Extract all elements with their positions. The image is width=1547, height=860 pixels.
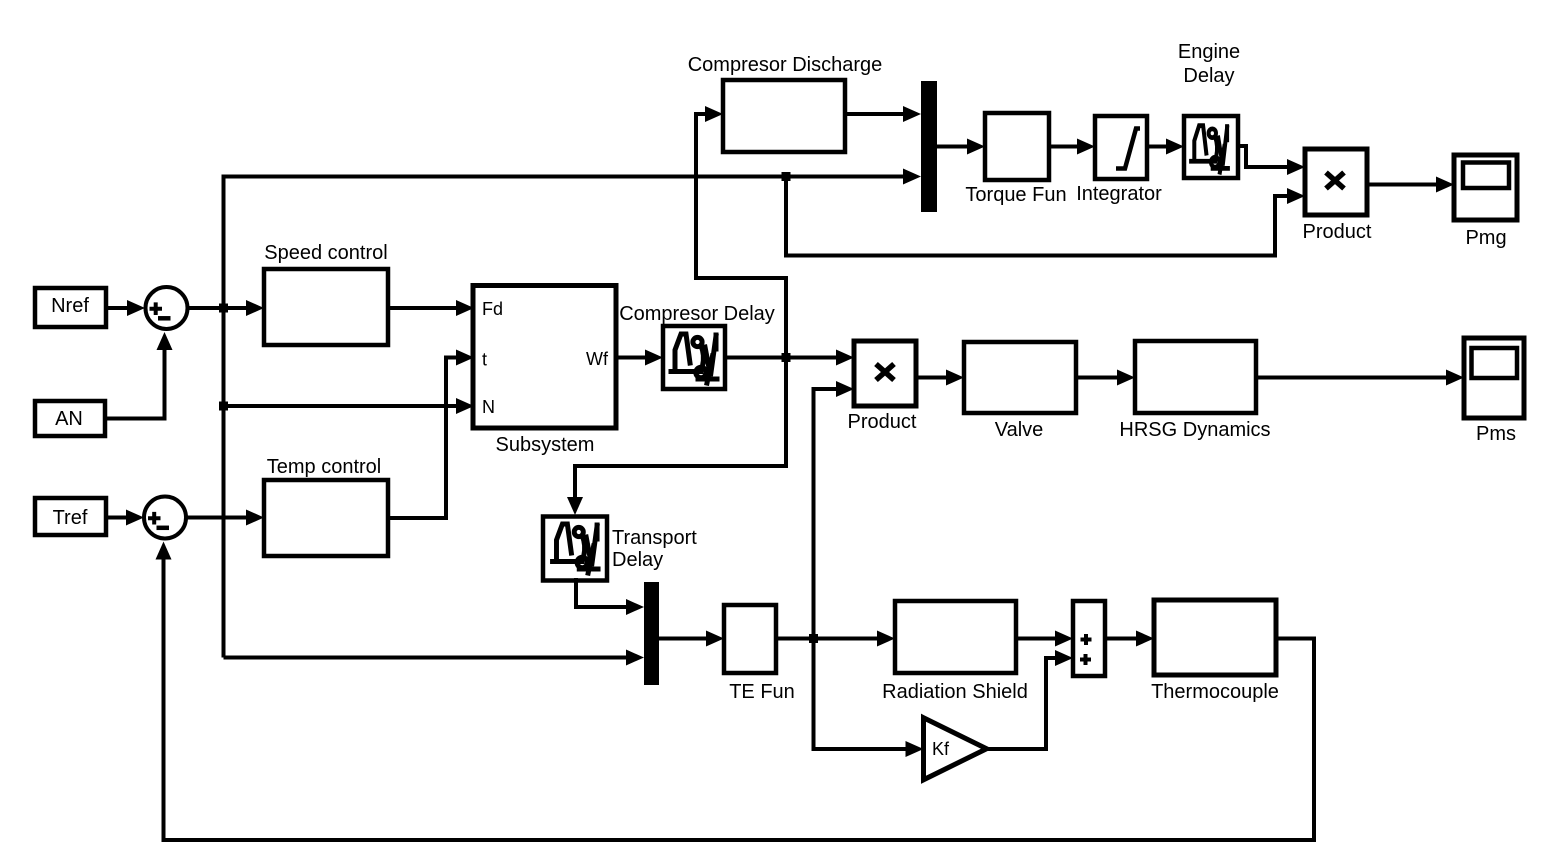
wire TE Fun to Radiation Shield <box>776 637 879 641</box>
svg-text:Compresor Discharge: Compresor Discharge <box>688 54 883 76</box>
svg-text:Product: Product <box>848 411 917 433</box>
wire Compresor Delay to Product2 <box>725 356 838 360</box>
block Engine Delay <box>1184 116 1238 178</box>
wire Sum2 to Temp control <box>186 516 248 520</box>
svg-text:Engine: Engine <box>1178 41 1240 63</box>
svg-text:Tref: Tref <box>53 507 88 529</box>
wire Wf to Compresor Delay <box>616 356 647 360</box>
wire Temp control to t input <box>388 358 458 519</box>
svg-text:t: t <box>482 350 487 370</box>
wire branch up to Product2 second input <box>814 389 839 639</box>
wire Mux1 to Torque Fun <box>937 145 969 149</box>
block HRSG Dynamics <box>1135 341 1256 413</box>
svg-text:Pmg: Pmg <box>1465 227 1506 249</box>
wire Compresor Discharge to Mux1 <box>845 112 904 116</box>
wire Tref to Sum2 <box>106 516 129 520</box>
svg-text:Speed control: Speed control <box>264 242 387 264</box>
svg-text:Product: Product <box>1303 221 1372 243</box>
wire Transport Delay to Mux2 <box>576 578 628 607</box>
svg-text:Temp control: Temp control <box>267 456 382 478</box>
svg-text:N: N <box>482 397 495 417</box>
block Product1 <box>1305 149 1367 215</box>
block Valve <box>964 342 1076 413</box>
mux Mux1 <box>921 81 937 212</box>
svg-text:Delay: Delay <box>612 549 663 571</box>
wire Torque Fun to Integrator <box>1049 145 1079 149</box>
block Subsystem <box>473 286 616 429</box>
scope Pms <box>1464 338 1524 418</box>
block Transport Delay <box>543 517 607 581</box>
wire Valve to HRSG Dynamics <box>1076 376 1119 380</box>
svg-text:Subsystem: Subsystem <box>496 434 595 456</box>
svg-text:AN: AN <box>55 408 83 430</box>
wire Sum1 to Speed control with branch node <box>188 306 248 310</box>
block Speed control <box>264 269 388 345</box>
svg-text:Wf: Wf <box>586 349 609 369</box>
scope Pmg <box>1454 155 1517 220</box>
svg-text:Nref: Nref <box>51 295 89 317</box>
wire Nref to Sum1 <box>106 306 130 310</box>
mux Mux2 <box>644 582 659 685</box>
node on y176 line x786 <box>782 172 791 181</box>
block Radiation Shield <box>895 601 1016 673</box>
svg-text:TE Fun: TE Fun <box>729 681 795 703</box>
wire Mux2 to TE Fun <box>659 637 708 641</box>
svg-text:Compresor Delay: Compresor Delay <box>619 303 775 325</box>
wire branch down to Kf <box>814 639 908 750</box>
wire Kf to Sum3 <box>986 658 1057 749</box>
block Torque Fun <box>985 113 1049 180</box>
svg-text:Integrator: Integrator <box>1076 183 1162 205</box>
icon integral sign <box>1116 129 1140 169</box>
sum junction Sum1 <box>146 287 188 329</box>
block Compresor Discharge <box>723 80 845 152</box>
svg-text:HRSG Dynamics: HRSG Dynamics <box>1119 419 1270 441</box>
svg-text:Delay: Delay <box>1183 65 1234 87</box>
wire Engine Delay to Product1 <box>1238 146 1289 167</box>
wire HRSG Dynamics to Pms <box>1256 376 1448 380</box>
source block Nref <box>35 288 106 327</box>
block Thermocouple <box>1154 600 1276 675</box>
wire branch to Subsystem N input <box>219 402 228 411</box>
sum junction Sum2 <box>144 497 186 539</box>
wire Sum3 to Thermocouple <box>1105 637 1138 641</box>
block Product2 <box>854 341 916 406</box>
icon Engine Delay scribble <box>1191 126 1228 173</box>
block Temp control <box>264 480 388 556</box>
wire Integrator to Engine Delay <box>1147 145 1168 149</box>
svg-text:Kf: Kf <box>932 739 950 759</box>
wire feedback Thermocouple to Sum2 <box>164 558 1315 840</box>
svg-text:Radiation Shield: Radiation Shield <box>882 681 1028 703</box>
icon Transport Delay scribble <box>553 524 599 573</box>
gain Kf triangle <box>924 718 987 780</box>
node at x223 on sum1 output <box>219 304 228 313</box>
svg-text:Valve: Valve <box>995 419 1044 441</box>
block TE Fun <box>724 605 776 673</box>
wire branch up to Compresor Discharge <box>696 114 786 358</box>
source block AN <box>35 401 105 436</box>
svg-text:Pms: Pms <box>1476 423 1516 445</box>
sum block Sum3 <box>1073 601 1105 676</box>
svg-text:Thermocouple: Thermocouple <box>1151 681 1279 703</box>
wire AN to Sum1 <box>105 350 165 419</box>
block Integrator <box>1095 116 1147 179</box>
wire branch down to Transport Delay <box>575 358 786 501</box>
wire Product1 to Pmg <box>1367 183 1438 187</box>
icon Compresor Delay scribble <box>671 334 717 383</box>
icon multiply x <box>876 364 894 380</box>
wire Speed control to Fd <box>388 306 458 310</box>
node on TE Fun output <box>809 634 818 643</box>
block Compresor Delay <box>663 326 725 389</box>
wire trunk to Mux2 lower input <box>224 656 628 660</box>
svg-text:Fd: Fd <box>482 299 503 319</box>
wire Radiation Shield to Sum3 <box>1016 637 1057 641</box>
svg-text:Torque Fun: Torque Fun <box>965 184 1066 206</box>
icon multiply x <box>1326 173 1344 189</box>
wire branch down to Product1 second input <box>786 177 1289 256</box>
wire vertical trunk x223 <box>224 177 905 658</box>
node on Wf line x786 <box>782 353 791 362</box>
wire Product2 to Valve <box>916 376 948 380</box>
source block Tref <box>35 498 106 535</box>
svg-text:Transport: Transport <box>612 527 697 549</box>
